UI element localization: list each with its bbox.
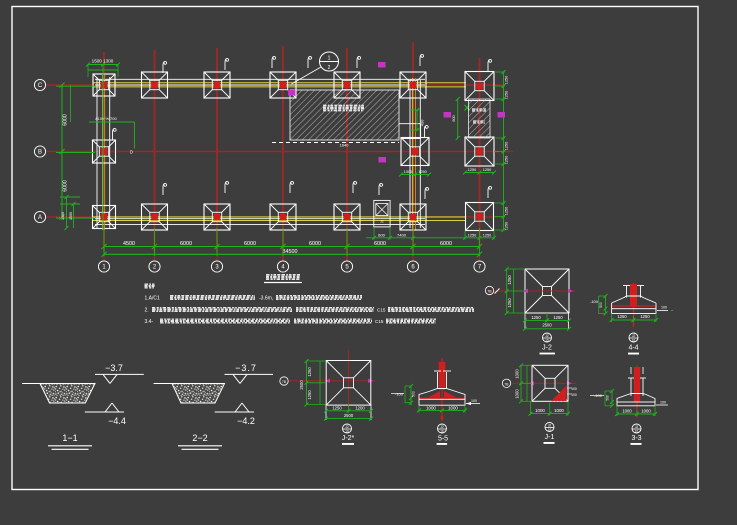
- notes line 1: [145, 296, 363, 302]
- svg-text:400: 400: [420, 119, 425, 126]
- right side dims col7: [502, 70, 509, 232]
- svg-text:A: A: [38, 215, 42, 221]
- section 5-5 red hatch: [419, 391, 465, 398]
- section 1-1 trench profile: [22, 384, 95, 404]
- footing A3 row A: [204, 204, 230, 230]
- leader flag 5: [308, 56, 312, 68]
- svg-text:1000: 1000: [535, 408, 545, 413]
- svg-text:1250: 1250: [468, 233, 476, 237]
- footing C6 row C: [400, 72, 426, 98]
- grid circle B: [34, 146, 56, 157]
- dim under B6: [399, 170, 431, 177]
- footing A4 row A: [270, 204, 296, 230]
- svg-text:1250: 1250: [505, 91, 509, 99]
- svg-text:6000: 6000: [180, 241, 192, 247]
- red stub to grid circle 7: [479, 255, 481, 261]
- svg-text:500: 500: [606, 395, 610, 401]
- red stub to grid circle 1: [103, 255, 105, 261]
- svg-text:500: 500: [412, 391, 416, 397]
- section 3-3 red column: [634, 365, 640, 418]
- svg-text:7B: 7B: [504, 382, 509, 386]
- green extension along column 1 wall: [102, 70, 104, 230]
- dim text 6000: [244, 241, 256, 247]
- grid circle 5: [341, 261, 352, 272]
- grid circle 3: [211, 261, 222, 272]
- J-2* red centerlines: [289, 350, 375, 408]
- svg-text:100: 100: [660, 401, 666, 405]
- green extension line col x=413: [412, 228, 414, 256]
- section 2-2 lower elevation mark -4.2: [215, 403, 255, 426]
- bottom dimension line row 2: [101, 252, 482, 257]
- notes line 3: [145, 319, 437, 325]
- svg-text:D: D: [130, 150, 133, 155]
- J-2 label: [540, 345, 556, 355]
- footing C4 row C: [270, 72, 296, 98]
- svg-text:3.4-: 3.4-: [145, 319, 154, 325]
- svg-text:C15: C15: [377, 308, 386, 313]
- svg-text:−4.4: −4.4: [108, 416, 126, 426]
- J-1 red centerline: [515, 381, 576, 385]
- footing B1 row B: [93, 140, 116, 163]
- leader flag 10: [225, 181, 229, 193]
- dim text 4500: [123, 241, 135, 247]
- J-1 detail bubble: [545, 423, 554, 433]
- section 5-5 label: [437, 436, 449, 445]
- leader flag 3: [225, 58, 229, 70]
- section 5-5 footing profile: [419, 389, 465, 406]
- J-2 plan square: [525, 269, 569, 313]
- svg-text:-100: -100: [395, 392, 404, 397]
- svg-text:2.: 2.: [145, 308, 149, 314]
- svg-text:7400: 7400: [397, 232, 407, 237]
- left inner green vertical: [70, 85, 72, 122]
- svg-text:100: 100: [571, 393, 577, 397]
- svg-text:6000: 6000: [374, 241, 386, 247]
- green extension line col x=347: [346, 228, 348, 256]
- hatched region label text: [323, 106, 364, 111]
- svg-text:1300: 1300: [404, 170, 412, 174]
- svg-text:−3.7: −3.7: [235, 363, 257, 373]
- footing A7 row A: [466, 203, 494, 231]
- J-1 left dims: [515, 363, 533, 403]
- svg-text:J2: J2: [545, 334, 549, 338]
- magenta label J mark 3: [444, 112, 452, 118]
- green extension line col x=217: [216, 228, 218, 256]
- svg-text:1000: 1000: [641, 408, 651, 413]
- sub dims 600/7400: [366, 228, 494, 240]
- svg-text:1250: 1250: [307, 367, 312, 377]
- leader flag 13: [425, 187, 429, 199]
- magenta label J mark 2: [379, 157, 387, 163]
- svg-text:1000: 1000: [622, 408, 632, 413]
- svg-text:2−2: 2−2: [192, 433, 207, 443]
- svg-text:1250: 1250: [483, 233, 491, 237]
- svg-text:16: 16: [545, 339, 549, 343]
- section 3-3 bottom dims: [615, 406, 657, 416]
- leader flag 9: [163, 183, 167, 195]
- magenta label J mark 4: [498, 112, 506, 118]
- svg-text:1250: 1250: [507, 275, 512, 285]
- J-1 plan square: [532, 365, 568, 401]
- red axis line row B: [46, 151, 513, 153]
- svg-text:C: C: [38, 83, 43, 89]
- title underline: [264, 275, 302, 283]
- compacted soil hatched region: [290, 90, 399, 140]
- svg-text:100: 100: [471, 399, 477, 403]
- svg-text:J2: J2: [440, 425, 444, 429]
- svg-text:1000: 1000: [426, 406, 436, 411]
- svg-text:6000: 6000: [63, 180, 69, 192]
- section 4-4 column outline: [623, 286, 644, 298]
- leader flag 15: [425, 125, 429, 137]
- svg-text:5-5: 5-5: [438, 436, 448, 443]
- svg-text:1250: 1250: [418, 170, 426, 174]
- svg-text:1250: 1250: [553, 315, 563, 320]
- section 2-2 label: [178, 433, 222, 449]
- svg-text:2500: 2500: [542, 323, 552, 328]
- svg-text:-100: -100: [590, 299, 599, 304]
- svg-text:J2: J2: [632, 334, 636, 338]
- dim text 6000: [440, 241, 452, 247]
- svg-text:1−1: 1−1: [62, 433, 77, 443]
- dim text 6000: [374, 241, 386, 247]
- red axis line column 7: [479, 58, 481, 248]
- J-2* left dims: [299, 359, 326, 407]
- green extension line col x=283: [282, 228, 284, 256]
- svg-text:-3.6m,: -3.6m,: [259, 296, 273, 302]
- section 4-4 footing profile: [612, 296, 656, 314]
- svg-text:1250: 1250: [307, 390, 312, 400]
- left lower bracket dims: [60, 195, 80, 230]
- J-2* plan square: [326, 361, 371, 406]
- svg-text:16: 16: [548, 428, 552, 432]
- svg-text:6000: 6000: [440, 241, 452, 247]
- section 2-2 upper elevation mark -3.7: [225, 363, 274, 384]
- svg-text:1250: 1250: [617, 314, 627, 319]
- svg-text:1.A/C1: 1.A/C1: [145, 296, 161, 302]
- footing C7 row C: [465, 72, 494, 101]
- section 3-3 column outline: [628, 367, 646, 396]
- section 4-4 label: [628, 345, 639, 355]
- footing B7 row B: [465, 137, 494, 166]
- svg-text:1000: 1000: [515, 389, 520, 399]
- dim text 34500: [283, 249, 298, 255]
- svg-text:1250: 1250: [505, 156, 509, 164]
- green extension line col x=154.5: [154, 228, 156, 256]
- footing A1 row A: [93, 206, 116, 229]
- svg-text:600: 600: [378, 232, 385, 237]
- footing C1 row C: [93, 74, 115, 96]
- svg-text:1000: 1000: [554, 408, 564, 413]
- red axis line column 3: [216, 48, 218, 252]
- svg-text:J2: J2: [548, 423, 552, 427]
- red stub to grid circle 2: [154, 255, 156, 261]
- wall row A double yellow: [93, 217, 466, 225]
- dim under B7: [463, 168, 496, 175]
- leader flag 11: [290, 181, 294, 193]
- footing C2 row C: [142, 72, 168, 98]
- J-2* bottom dims: [324, 405, 373, 421]
- J-1 bottom dims: [529, 402, 571, 416]
- left dimension line 6000/6000: [56, 82, 95, 219]
- J-2* detail bubble: [343, 424, 352, 434]
- section 4-4 left dims: [590, 294, 608, 316]
- svg-text:J2: J2: [635, 425, 639, 429]
- footing A5 row A: [334, 204, 360, 230]
- svg-text:J-1: J-1: [545, 434, 555, 441]
- svg-text:16: 16: [632, 339, 636, 343]
- grid circle 7: [474, 261, 485, 272]
- grid circle A: [34, 211, 56, 222]
- dim 400 col6: [410, 108, 425, 132]
- magenta label J mark 5: [288, 90, 296, 96]
- svg-text:1250: 1250: [332, 405, 342, 410]
- J-2* label: [342, 435, 355, 445]
- svg-text:J2: J2: [345, 425, 349, 429]
- red stub to grid circle 6: [412, 255, 414, 261]
- red axis line column 1: [103, 52, 105, 252]
- svg-text:1250: 1250: [640, 314, 650, 319]
- red axis line row A: [46, 216, 505, 218]
- svg-text:J-2*: J-2*: [342, 435, 355, 442]
- leader flag 12: [353, 181, 357, 193]
- svg-text:7B: 7B: [282, 380, 287, 384]
- section 4-4 red column: [612, 283, 657, 327]
- svg-text:16: 16: [440, 430, 444, 434]
- svg-text:1250: 1250: [531, 315, 541, 320]
- svg-text:2500: 2500: [344, 413, 354, 418]
- J-2 bottom dims: [523, 313, 571, 331]
- hatched strip between C7 and B7: [469, 99, 491, 138]
- green extension line col x=104: [103, 228, 105, 256]
- green mark at strip edge: [465, 105, 470, 111]
- right dim extension stubs: [494, 72, 505, 230]
- svg-text:1250: 1250: [505, 142, 509, 150]
- svg-text:7B: 7B: [487, 290, 492, 294]
- dim text 6000: [309, 241, 321, 247]
- svg-text:J-2: J-2: [542, 345, 552, 352]
- svg-text:4500: 4500: [123, 241, 135, 247]
- grid circle 1: [98, 261, 109, 272]
- grid circle 6: [407, 261, 418, 272]
- svg-text:1000: 1000: [515, 369, 520, 379]
- J-1 label: [544, 434, 555, 444]
- section 5-5 bottom dims: [417, 405, 467, 412]
- mid-left dim line with leader D: [89, 116, 135, 155]
- footing C3 row C: [204, 72, 230, 98]
- footing C5 row C: [334, 72, 360, 98]
- svg-text:600: 600: [452, 115, 456, 121]
- left dim text 6000 lower: [63, 180, 69, 192]
- svg-text:1000: 1000: [448, 406, 458, 411]
- section 3-3 label: [631, 435, 642, 445]
- svg-text:1300: 1300: [61, 212, 65, 220]
- section 4-4 bottom dims: [610, 314, 658, 323]
- magenta label J mark 1: [378, 62, 386, 68]
- grid circle C: [34, 79, 56, 90]
- section 5-5 red column: [439, 358, 446, 422]
- dim under A7: [463, 231, 496, 240]
- svg-text:34500: 34500: [283, 249, 298, 255]
- J-2* left bubble: [280, 377, 288, 385]
- svg-text:16: 16: [345, 430, 349, 434]
- red axis line row C: [46, 84, 503, 86]
- wall column 6 vertical: [410, 78, 420, 230]
- svg-text:−4.2: −4.2: [237, 416, 255, 426]
- section 3-3 footing profile: [617, 394, 655, 406]
- leader flag 16: [379, 183, 383, 195]
- svg-text:6000: 6000: [244, 241, 256, 247]
- wall row C double yellow: [93, 79, 466, 87]
- svg-text:J2: J2: [380, 220, 384, 224]
- section 3-3 right leader: [656, 401, 668, 406]
- section 5-5 right leader: [466, 399, 480, 405]
- svg-text:2500: 2500: [299, 380, 304, 390]
- grid circle 4: [277, 261, 288, 272]
- section 5-5 left dims: [391, 384, 416, 405]
- svg-text:1500: 1500: [69, 212, 73, 220]
- svg-text:100: 100: [661, 306, 667, 310]
- leader flag 8: [488, 59, 492, 71]
- svg-text:1250: 1250: [483, 168, 491, 172]
- wall column 1 vertical: [97, 75, 110, 230]
- leader flag 2: [163, 61, 167, 73]
- notes header: [145, 284, 155, 288]
- svg-text:6000: 6000: [309, 241, 321, 247]
- section 1-1 upper elevation mark -3.7: [95, 363, 144, 384]
- svg-text:1250: 1250: [507, 298, 512, 308]
- svg-text:−3.7: −3.7: [105, 363, 123, 373]
- leader flag 7: [420, 54, 424, 66]
- red stub to grid circle 3: [216, 255, 218, 261]
- J-2 detail bubble: [543, 333, 552, 343]
- svg-text:100: 100: [571, 387, 577, 391]
- dim 600 strip col7: [452, 97, 460, 140]
- leader flag 6: [357, 56, 361, 68]
- dashed line below hatched region: [272, 142, 399, 144]
- step outline right of hatch: [399, 124, 421, 139]
- section 3-3 detail bubble: [632, 424, 641, 434]
- J-2 left dims: [505, 267, 525, 315]
- svg-text:#100 % 700: #100 % 700: [95, 116, 117, 121]
- J-1 red triangle: [552, 386, 567, 401]
- small foundation pit J-2 box: [374, 200, 390, 227]
- top-left dims 1500/1300: [86, 59, 120, 78]
- footing A2 row A: [142, 204, 168, 230]
- red axis line column 5: [346, 48, 348, 261]
- svg-text:1250: 1250: [505, 222, 509, 230]
- bottom dimension line row 1: [101, 244, 482, 249]
- red stub to grid circle 4: [282, 255, 284, 261]
- section 3-3 left dims: [590, 389, 614, 408]
- grid circle 2: [149, 261, 160, 272]
- svg-text:1250: 1250: [505, 207, 509, 215]
- red axis line column 2: [154, 50, 156, 252]
- svg-text:4-4: 4-4: [628, 345, 638, 352]
- svg-text:6000: 6000: [63, 114, 69, 126]
- dim text 6000: [180, 241, 192, 247]
- leader flag 14: [488, 186, 492, 198]
- red stub to grid circle 5: [346, 255, 348, 261]
- leader flag 1: [113, 128, 117, 140]
- svg-text:1500 1300: 1500 1300: [92, 59, 114, 64]
- section 4-4 right leader: [657, 306, 674, 314]
- J-1 left bubble: [502, 379, 515, 387]
- svg-text:1: 1: [328, 56, 331, 62]
- section 5-5 detail bubble: [438, 424, 447, 434]
- detail callout bubble: [292, 52, 339, 84]
- svg-text:2: 2: [328, 65, 331, 71]
- svg-text:500: 500: [599, 302, 603, 308]
- J-2 left bubble: [485, 286, 493, 294]
- section 1-1 label: [48, 433, 92, 449]
- left dim text 6000 upper: [63, 114, 69, 126]
- dim text 16400 under hatch: [340, 143, 350, 148]
- leader flag 4: [272, 56, 276, 68]
- green extension line col x=479.5: [479, 228, 481, 256]
- svg-text:1640: 1640: [340, 143, 350, 148]
- svg-text:1250: 1250: [505, 76, 509, 84]
- svg-text:B: B: [38, 150, 42, 156]
- red axis line column 4: [282, 46, 284, 261]
- svg-text:16: 16: [635, 430, 639, 434]
- J-2 red centerline: [487, 289, 575, 294]
- svg-text:C15: C15: [375, 319, 384, 324]
- J-1 right tiny dims: [567, 387, 577, 397]
- section 5-5 column outline: [434, 371, 451, 388]
- svg-text:1200: 1200: [355, 405, 365, 410]
- footing A6 row A: [400, 204, 426, 230]
- footing B6 row B (large): [401, 138, 429, 166]
- section 2-2 trench profile: [154, 384, 225, 404]
- section 4-4 detail bubble: [629, 333, 638, 343]
- section 1-1 lower elevation mark -4.4: [85, 403, 126, 426]
- svg-text:1250: 1250: [468, 168, 476, 172]
- notes line 2: [145, 308, 475, 314]
- red axis line column 6: [412, 42, 414, 252]
- svg-text:3-3: 3-3: [631, 435, 641, 442]
